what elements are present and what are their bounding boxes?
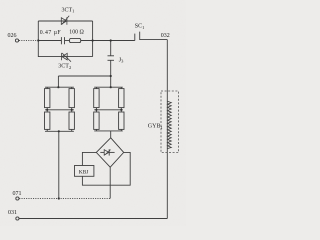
wire: left group center tap down <box>58 131 60 198</box>
junction center tap / 071 line <box>58 197 60 199</box>
bridge rectifier diamond <box>96 138 123 167</box>
svg-text:031: 031 <box>8 210 17 216</box>
junction at J3 / cross horizontal <box>110 75 112 77</box>
wire: bottom branch <box>38 56 92 58</box>
wire: middle branch right lead to SC1 <box>81 40 135 42</box>
junction left group bottom center tap <box>58 130 60 132</box>
wire: snubber left edge <box>37 21 39 57</box>
left group middle horizontal <box>45 109 74 111</box>
wire: left group feed drop <box>57 76 59 87</box>
relay coil KBJ box <box>75 166 94 177</box>
winding L2a <box>45 110 50 132</box>
wire: middle branch left lead <box>38 40 61 42</box>
right group top horizontal <box>94 86 123 88</box>
wire: bottom 031 line <box>19 218 167 220</box>
diode inside bridge <box>100 149 114 155</box>
winding L1a <box>45 87 50 110</box>
terminal 071 <box>16 197 19 200</box>
wire: snubber right edge <box>92 21 94 57</box>
wire: bridge bottom vertex down <box>109 167 111 198</box>
wire: right group center tap to bridge <box>110 131 112 138</box>
protection box GYB1 dashed <box>161 91 178 153</box>
svg-text:0.47 µF: 0.47 µF <box>40 30 62 36</box>
svg-text:3CT2: 3CT2 <box>58 64 71 70</box>
junction left group middle right <box>71 109 73 111</box>
contact SC1 left tick <box>134 34 136 41</box>
svg-text:KBJ: KBJ <box>79 169 89 175</box>
junction at 026 lead / snubber left edge <box>37 39 39 41</box>
left group bottom horizontal <box>45 130 74 132</box>
capacitor 0.47uF <box>61 37 64 44</box>
junction at left group top feed <box>57 86 59 88</box>
svg-text:3CT1: 3CT1 <box>62 7 75 13</box>
junction right group middle right <box>120 109 122 111</box>
wire: cross horizontal to left group <box>58 75 110 77</box>
winding L2b <box>69 110 74 132</box>
winding R2a <box>94 110 99 131</box>
winding R1a <box>94 87 99 110</box>
svg-text:100 Ω: 100 Ω <box>69 29 84 35</box>
svg-text:J3: J3 <box>119 58 124 64</box>
resistor 100 ohm <box>70 38 81 42</box>
junction at right group top feed <box>110 86 112 88</box>
svg-text:026: 026 <box>8 33 17 39</box>
right group bottom horizontal <box>94 130 123 132</box>
arrester GYB1 zigzag element <box>168 101 172 148</box>
wire: bridge left vertex to KBJ top <box>82 152 96 165</box>
winding R1b <box>119 87 124 110</box>
wire: top branch <box>38 20 92 22</box>
wire: KBJ bottom loop to bridge right vertex <box>82 152 130 185</box>
terminal 031 <box>16 217 19 220</box>
wire: 071 dashed line <box>19 198 110 200</box>
svg-text:032: 032 <box>161 33 170 39</box>
winding R2b <box>119 110 124 131</box>
thyristor 3CT1 <box>61 16 69 25</box>
svg-text:SC1: SC1 <box>135 24 145 30</box>
contact J3 (vertical) <box>108 41 115 88</box>
svg-text:GYB1: GYB1 <box>148 124 163 130</box>
contact SC1 right piece <box>140 32 168 40</box>
junction left group middle left <box>46 109 48 111</box>
junction right group middle left <box>95 109 97 111</box>
right group middle horizontal <box>94 109 123 111</box>
thyristor 3CT2 <box>62 53 71 62</box>
junction at snubber right edge / middle branch <box>92 39 94 41</box>
winding L1b <box>69 87 74 110</box>
junction at J3 tap on middle branch <box>110 39 112 41</box>
wire: cap to resistor <box>65 40 70 42</box>
svg-text:071: 071 <box>13 191 22 197</box>
wire: 026 dashed lead <box>19 40 38 42</box>
terminal 026 <box>15 39 18 42</box>
wire: right bus <box>166 40 168 219</box>
left group top horizontal <box>45 86 74 88</box>
